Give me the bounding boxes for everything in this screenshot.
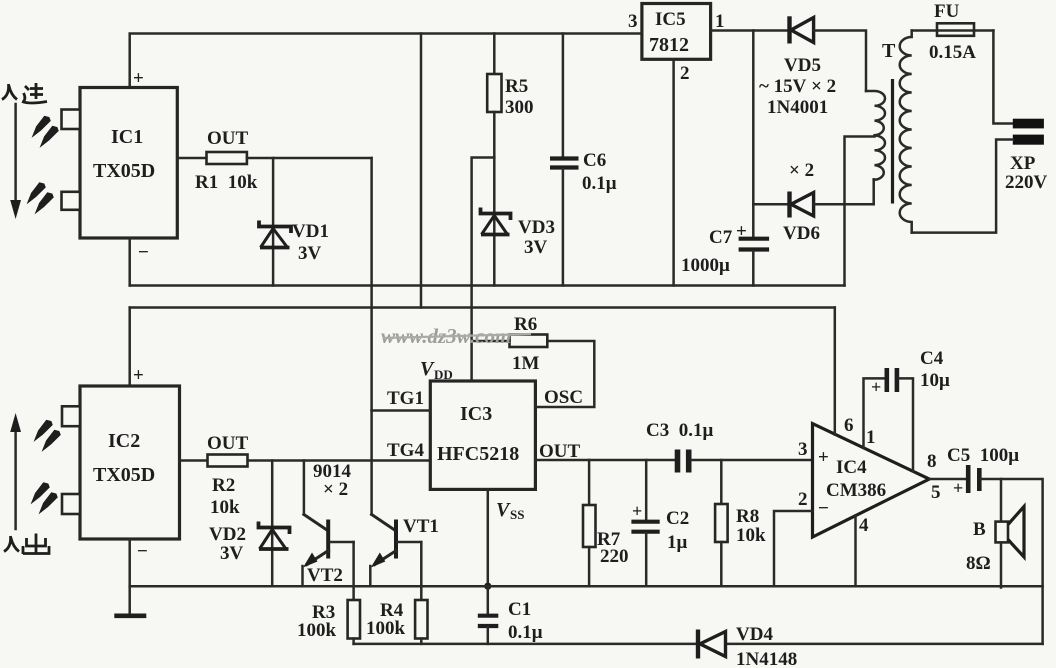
svg-text:−: − xyxy=(818,498,829,519)
svg-text:3V: 3V xyxy=(220,543,244,564)
svg-text:3: 3 xyxy=(628,11,638,32)
svg-text:+: + xyxy=(736,221,747,242)
capacitor C6 0.1u xyxy=(550,34,617,286)
diode VD4 1N4148 xyxy=(698,624,797,668)
svg-text:3: 3 xyxy=(798,439,808,460)
svg-text:× 2: × 2 xyxy=(323,479,348,500)
svg-text:VD6: VD6 xyxy=(783,223,820,244)
op-amp pin4 wire xyxy=(854,516,857,587)
resistor R2 xyxy=(207,433,249,518)
svg-text:SS: SS xyxy=(510,507,524,522)
svg-text:8Ω: 8Ω xyxy=(966,553,991,574)
svg-text:6: 6 xyxy=(844,415,854,436)
resistor R7 220 xyxy=(583,460,629,586)
svg-text:7812: 7812 xyxy=(649,34,689,56)
svg-text:VT2: VT2 xyxy=(307,565,343,586)
svg-text:1000μ: 1000μ xyxy=(681,255,730,276)
svg-text:OUT: OUT xyxy=(207,128,249,149)
resistor R6 1M xyxy=(472,314,548,374)
voltage regulator IC5 7812 xyxy=(628,4,788,286)
resistor R3 100k xyxy=(297,542,360,644)
svg-text:10k: 10k xyxy=(736,525,766,546)
svg-text:+: + xyxy=(632,501,642,521)
zener diode VD2 3V xyxy=(209,461,290,587)
wire 12V top rail xyxy=(130,34,642,88)
svg-text:HFC5218: HFC5218 xyxy=(437,443,519,465)
svg-text:+: + xyxy=(133,68,144,89)
svg-text:1: 1 xyxy=(866,427,876,448)
capacitor C5 100u xyxy=(947,445,1019,498)
svg-text:TX05D: TX05D xyxy=(93,464,155,486)
svg-text:V: V xyxy=(420,358,435,380)
svg-text:TG1: TG1 xyxy=(387,388,424,409)
svg-text:OUT: OUT xyxy=(207,433,249,454)
label 人出 (person exits) xyxy=(4,534,49,555)
svg-text:+: + xyxy=(818,447,829,468)
capacitor C3 0.1u xyxy=(646,420,813,473)
svg-text:3V: 3V xyxy=(298,243,322,264)
speaker B 8ohm xyxy=(966,479,1024,588)
wire IC1 OUT to R1 xyxy=(177,157,206,160)
IR rays at IC1 xyxy=(28,116,59,213)
svg-text:220V: 220V xyxy=(1005,172,1048,193)
svg-text:R8: R8 xyxy=(736,506,759,527)
svg-text:VT1: VT1 xyxy=(403,516,439,537)
svg-text:0.15A: 0.15A xyxy=(929,42,976,63)
arrow person exits (up) xyxy=(10,413,21,529)
wire lower ground rail xyxy=(130,585,1043,588)
arrow person enters (down) xyxy=(10,104,21,219)
capacitor C7 1000u xyxy=(681,221,769,286)
svg-text:CM386: CM386 xyxy=(826,480,886,501)
svg-text:0.1μ: 0.1μ xyxy=(582,173,617,194)
svg-text:8: 8 xyxy=(927,451,937,472)
resistor R1 xyxy=(195,128,258,193)
plug XP 220V xyxy=(1005,119,1048,193)
svg-text:VD5: VD5 xyxy=(784,55,821,76)
capacitor C2 1u xyxy=(631,460,689,586)
op-amp IC4 CM386 xyxy=(798,415,941,537)
transformer T secondary winding xyxy=(866,91,885,204)
svg-text:5: 5 xyxy=(931,482,941,503)
diode VD6 xyxy=(753,160,873,244)
transformer T primary winding xyxy=(882,31,912,233)
svg-text:10μ: 10μ xyxy=(920,370,950,391)
wire R2 to TG4 xyxy=(248,459,431,462)
wire IC1 minus lead xyxy=(128,238,131,286)
transformer center tap xyxy=(845,137,875,286)
fuse FU 0.15A xyxy=(912,1,994,63)
wire plug return to primary xyxy=(912,140,1013,233)
transistor VT1 xyxy=(313,411,439,587)
svg-text:+: + xyxy=(871,377,881,397)
svg-text:VD2: VD2 xyxy=(209,524,246,545)
IC3 pin OSC loop xyxy=(535,341,594,408)
svg-text:VD3: VD3 xyxy=(518,217,555,238)
svg-text:R2: R2 xyxy=(212,475,235,496)
wire 12V lower rail xyxy=(130,306,835,309)
svg-text:R6: R6 xyxy=(514,314,537,335)
svg-text:0.1μ: 0.1μ xyxy=(508,622,543,643)
svg-text:−: − xyxy=(137,541,148,562)
wire IC2 OUT to R2 xyxy=(180,459,208,462)
svg-text:IC5: IC5 xyxy=(655,9,686,30)
svg-text:+: + xyxy=(133,365,144,386)
svg-text:IC1: IC1 xyxy=(111,126,143,148)
svg-text:× 2: × 2 xyxy=(789,160,814,181)
svg-text:C5 100μ: C5 100μ xyxy=(947,445,1019,466)
svg-text:1: 1 xyxy=(715,11,725,32)
svg-text:VD4: VD4 xyxy=(736,624,773,645)
svg-text:~ 15V × 2: ~ 15V × 2 xyxy=(759,76,836,97)
transformer core xyxy=(891,79,894,204)
svg-text:220: 220 xyxy=(600,546,629,567)
wire VD5 anode to transformer secondary top xyxy=(814,31,866,92)
capacitor C1 0.1u xyxy=(478,586,543,644)
watermark xyxy=(381,324,531,348)
svg-text:C6: C6 xyxy=(583,150,606,171)
wire VD4 line xyxy=(354,643,1043,646)
svg-text:C7: C7 xyxy=(709,227,733,248)
svg-text:FU: FU xyxy=(934,1,960,22)
capacitor C4 10u xyxy=(871,348,950,471)
svg-text:10k: 10k xyxy=(210,497,240,518)
svg-text:1N4148: 1N4148 xyxy=(736,649,797,668)
resistor R8 10k xyxy=(715,460,766,586)
svg-text:C4: C4 xyxy=(920,348,944,369)
svg-text:IC3: IC3 xyxy=(460,403,492,425)
diode VD5 1N4001 xyxy=(759,16,836,118)
IR rays at IC2 xyxy=(32,420,61,513)
label 人进 (person enters) xyxy=(2,83,47,103)
svg-text:OSC: OSC xyxy=(544,387,583,408)
zener diode VD3 3V xyxy=(481,158,555,286)
IC3 pin OUT xyxy=(535,441,675,462)
svg-text:B: B xyxy=(973,519,986,540)
svg-text:T: T xyxy=(882,40,896,62)
svg-text:100k: 100k xyxy=(297,620,337,641)
svg-text:1μ: 1μ xyxy=(667,532,688,553)
svg-text:TX05D: TX05D xyxy=(93,160,155,182)
op-amp pin6 supply wire xyxy=(834,308,837,435)
svg-text:IC4: IC4 xyxy=(836,457,867,478)
wire R1 to node xyxy=(247,157,372,160)
svg-text:XP: XP xyxy=(1010,153,1036,174)
transistor VT2 xyxy=(303,461,354,587)
svg-text:−: − xyxy=(138,242,149,263)
wire IC2 plus lead xyxy=(128,308,131,387)
svg-text:+: + xyxy=(953,478,963,498)
wire ground rail top section xyxy=(130,284,845,287)
svg-text:TG4: TG4 xyxy=(387,440,424,461)
svg-text:3V: 3V xyxy=(524,237,548,258)
svg-text:4: 4 xyxy=(859,515,869,536)
svg-text:DD: DD xyxy=(434,367,453,382)
sensor module IC2 xyxy=(62,365,180,562)
sensor module IC1 xyxy=(62,68,178,263)
wire op-amp output to C5 xyxy=(929,478,966,481)
IC3 pin VSS xyxy=(484,489,524,589)
zener diode VD1 3V xyxy=(259,221,329,265)
wire C5 to right drop xyxy=(981,479,1043,644)
op-amp pin1 wire xyxy=(864,378,886,448)
svg-text:C2: C2 xyxy=(666,508,689,529)
IC3 pin TG1 xyxy=(372,388,431,411)
ground xyxy=(114,539,146,616)
wire 12V drop to lower rail xyxy=(420,34,423,308)
svg-text:C3 0.1μ: C3 0.1μ xyxy=(646,420,713,441)
svg-text:R5: R5 xyxy=(505,76,528,97)
resistor R4 100k xyxy=(366,542,428,644)
wire VD1 branch xyxy=(272,158,275,286)
wire R1 node down to TG1 xyxy=(370,158,373,411)
wire fuse to plug xyxy=(993,31,1012,124)
IC3 HFC5218 xyxy=(430,381,535,489)
svg-text:OUT: OUT xyxy=(539,441,581,462)
svg-text:1M: 1M xyxy=(512,353,540,374)
svg-text:VD1: VD1 xyxy=(292,221,329,242)
svg-text:C1: C1 xyxy=(508,599,531,620)
svg-text:2: 2 xyxy=(798,489,808,510)
svg-text:V: V xyxy=(496,499,511,521)
resistor R5 300 xyxy=(487,34,533,158)
svg-text:100k: 100k xyxy=(366,618,406,639)
svg-text:300: 300 xyxy=(505,97,534,118)
svg-text:IC2: IC2 xyxy=(108,430,140,452)
svg-text:2: 2 xyxy=(680,63,690,84)
wire rectifier output junction xyxy=(752,31,755,238)
op-amp pin2 wire xyxy=(774,511,813,586)
svg-text:1N4001: 1N4001 xyxy=(767,97,828,118)
wire 3V node to IC3 VDD xyxy=(472,158,495,382)
svg-text:R1 10k: R1 10k xyxy=(195,172,258,193)
